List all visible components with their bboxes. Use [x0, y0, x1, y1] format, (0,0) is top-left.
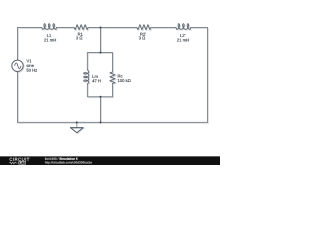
inductor L1 — [42, 24, 57, 30]
wire right side — [207, 28, 209, 123]
wire bottom rail — [17, 121, 208, 123]
inductor L2' — [176, 24, 191, 30]
resistor R1 — [75, 26, 89, 31]
label L2' name — [180, 34, 185, 37]
label Rc value — [118, 79, 131, 82]
inductor L1 — [43, 25, 58, 31]
label L1 value — [44, 39, 56, 42]
components — [42, 24, 191, 84]
label L1 name — [47, 34, 51, 37]
wire combo left branch — [86, 53, 88, 97]
label Lm name — [93, 75, 98, 78]
node dot top — [100, 27, 102, 29]
source shadow — [13, 61, 24, 72]
label R2' value — [139, 37, 145, 40]
footer credit user — [45, 158, 58, 160]
inductor Lm — [84, 71, 89, 86]
ground triangle — [71, 128, 84, 133]
ground stub — [76, 122, 78, 127]
label R2' name — [140, 33, 146, 36]
wire shadow layer — [13, 25, 209, 134]
resistor R1 — [74, 25, 88, 30]
footer logo LAB — [19, 162, 25, 164]
wire combo top rail — [88, 52, 114, 54]
label V1 value — [27, 69, 37, 72]
inductor L2' — [177, 25, 192, 31]
wire bottom rail — [18, 122, 209, 124]
V1 sine symbol — [15, 63, 21, 69]
wire middle drop upper — [100, 28, 102, 53]
wire left side — [17, 28, 19, 123]
ground shadow — [71, 128, 84, 133]
footer credit title — [59, 158, 77, 160]
wire combo right branch — [112, 53, 114, 97]
wire combo bottom rail — [88, 97, 114, 99]
node dot combo bottom — [100, 96, 102, 98]
label R1 name — [78, 33, 83, 36]
node dot bottom — [100, 121, 102, 123]
resistor R2' — [138, 26, 152, 31]
label Rc name — [118, 75, 123, 78]
label L2' value — [177, 39, 189, 42]
label Lm value — [92, 79, 100, 82]
node dot ground — [76, 121, 78, 123]
wire combo left branch — [87, 53, 89, 97]
wire left side — [17, 28, 19, 123]
wire combo top rail — [87, 52, 113, 54]
resistor Rc — [111, 73, 116, 84]
footer url — [45, 161, 92, 164]
wire right side — [207, 28, 209, 123]
label V1 type — [27, 64, 34, 67]
resistor Rc — [110, 72, 115, 83]
wire combo right branch — [112, 53, 114, 97]
label V1 name — [26, 60, 31, 63]
resistor R2' — [137, 25, 151, 30]
wire middle drop lower — [100, 98, 102, 124]
wire middle drop lower — [100, 97, 102, 123]
node dot combo top — [100, 52, 102, 54]
inductor Lm — [84, 70, 89, 85]
wire top rail — [18, 27, 209, 29]
voltage source V1 circle — [12, 60, 23, 71]
label R1 value — [76, 37, 82, 40]
footer logo zigzag — [9, 162, 17, 164]
wire combo bottom rail — [87, 96, 113, 98]
footer bar — [0, 156, 220, 165]
wire top rail — [17, 27, 208, 29]
wires — [17, 28, 208, 123]
footer logo CIRCUIT — [10, 158, 30, 161]
footer logo LAB box — [18, 161, 26, 165]
wire middle drop upper — [100, 28, 102, 53]
